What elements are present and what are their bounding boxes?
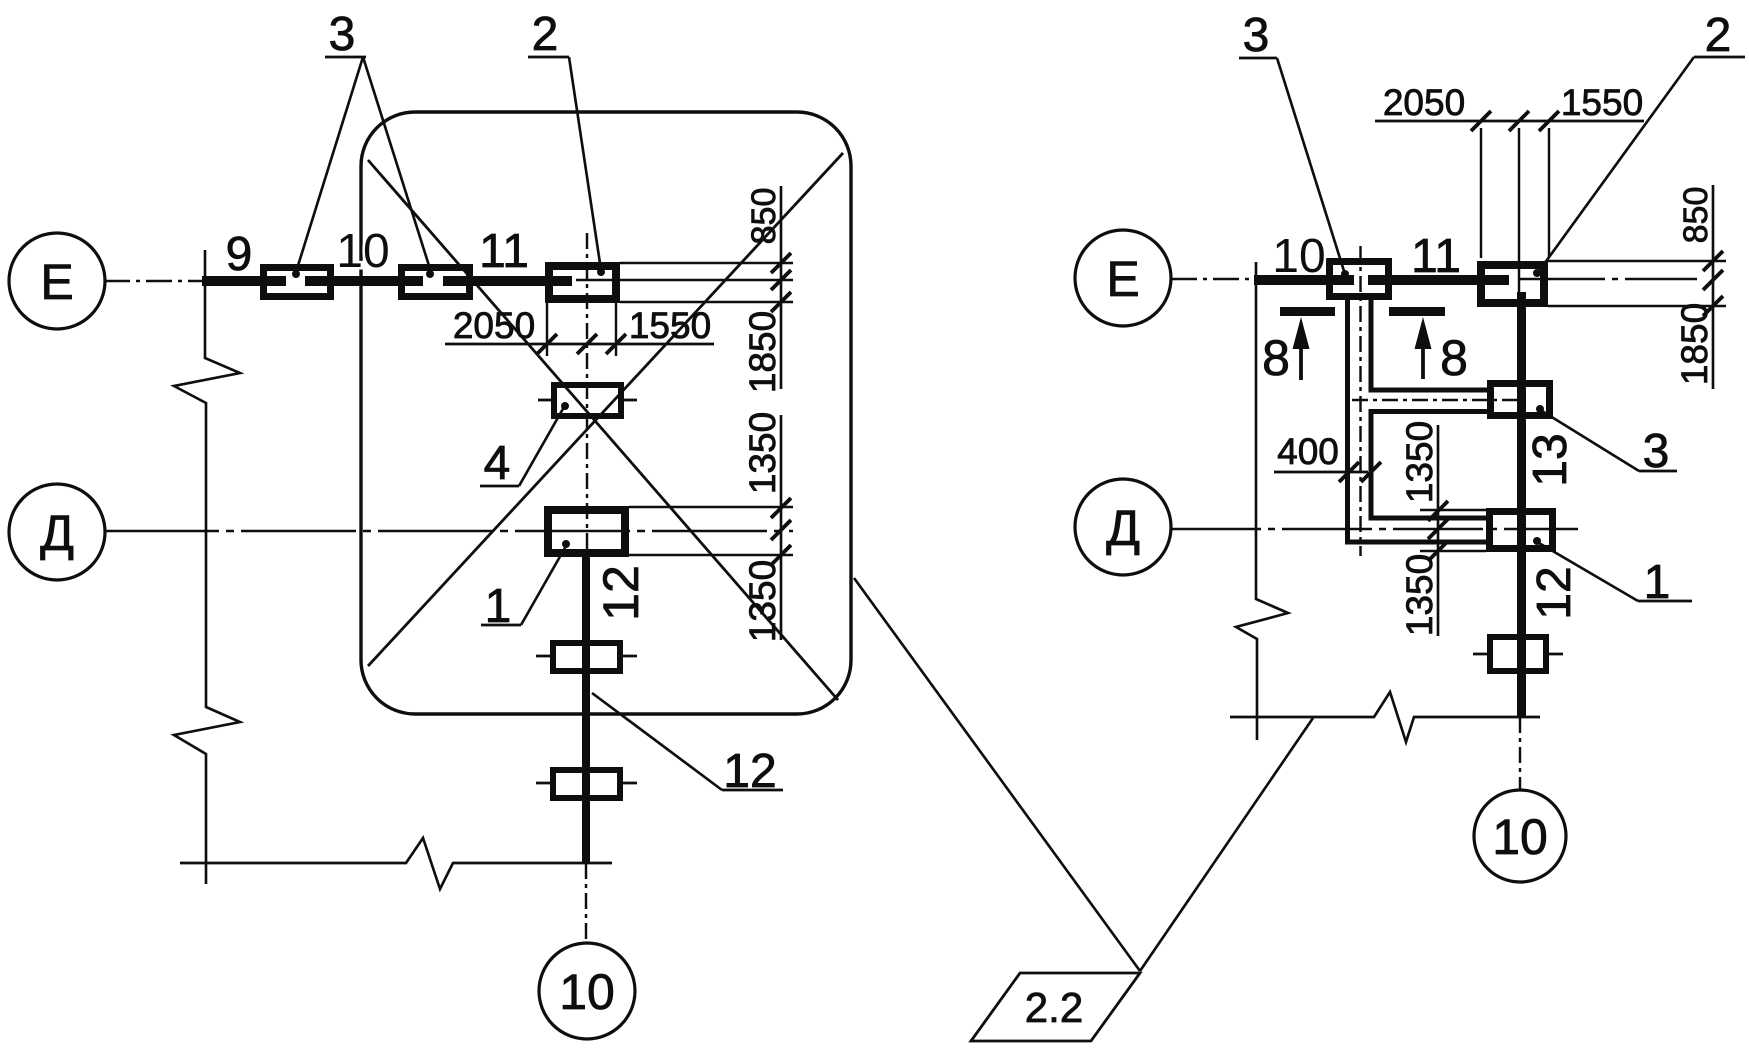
riser centerline (axis 10 vertical) xyxy=(586,233,588,557)
sleeve box 4 xyxy=(538,385,637,416)
axis E right continuation centerline xyxy=(1520,278,1697,280)
sleeve on riser lower xyxy=(536,770,637,798)
svg-text:10: 10 xyxy=(559,964,615,1020)
LEFT-DRAWING xyxy=(9,8,1140,1039)
wall on axis E xyxy=(202,276,572,286)
riser wall below box 1 xyxy=(582,557,590,863)
diagonal brace 2 xyxy=(368,153,843,666)
anchor box 11 xyxy=(549,266,616,299)
svg-text:3: 3 xyxy=(329,8,356,61)
svg-text:1550: 1550 xyxy=(1561,82,1643,123)
svg-text:12: 12 xyxy=(723,745,776,798)
dot in box 11 xyxy=(597,268,605,276)
dot in box 10 right xyxy=(1341,270,1349,278)
air arrow 8 left xyxy=(1262,307,1335,386)
anchor box 13 xyxy=(1491,384,1550,416)
tee branch bottom and duct inner lower contour xyxy=(1371,412,1487,519)
anchor box 9 xyxy=(264,268,331,297)
vertical dimension 850/1850 right xyxy=(1674,185,1723,389)
dim 2050 1550 (left) xyxy=(445,303,714,356)
dot in box 10 xyxy=(426,270,434,278)
svg-text:Д: Д xyxy=(1106,500,1140,556)
callout 1 right xyxy=(1539,543,1692,609)
svg-text:1350: 1350 xyxy=(1399,554,1440,636)
svg-text:Е: Е xyxy=(40,254,73,310)
axis E right centerline xyxy=(1171,278,1256,280)
section mark 2.2 parallelogram xyxy=(971,973,1140,1041)
svg-text:12: 12 xyxy=(1528,566,1581,619)
anchor box 1 xyxy=(548,510,625,553)
svg-text:10: 10 xyxy=(1272,230,1325,283)
duct centerline vertical xyxy=(1359,246,1361,556)
extension lines from box 1 to right stack xyxy=(629,507,793,555)
equipment outline (rounded rectangle) xyxy=(361,112,851,714)
centerline to bubble 10 right xyxy=(1519,717,1521,790)
svg-text:Д: Д xyxy=(40,505,74,561)
wall on axis E right xyxy=(1254,275,1509,285)
svg-text:11: 11 xyxy=(479,225,529,278)
svg-text:1850: 1850 xyxy=(1674,303,1715,385)
anchor box 11 right xyxy=(1481,265,1544,303)
duct inner upper contour with tee branch top xyxy=(1371,298,1487,390)
callout 2 with leader to box 11 xyxy=(528,8,601,270)
riser wall right drawing xyxy=(1517,292,1526,717)
svg-text:12: 12 xyxy=(593,565,649,621)
callout 3 top right xyxy=(1239,9,1344,271)
dot in box 11 right xyxy=(1533,269,1541,277)
svg-text:1350: 1350 xyxy=(742,560,783,642)
svg-text:1850: 1850 xyxy=(742,311,783,393)
grid bubble 10 (bottom) xyxy=(539,943,635,1039)
duct outer contour xyxy=(1348,298,1487,542)
grid bubble E (axis Е) xyxy=(9,233,105,329)
svg-text:2: 2 xyxy=(1705,9,1732,62)
callout 12 with leader to riser xyxy=(592,693,783,798)
svg-text:13: 13 xyxy=(1524,433,1577,486)
floor break line bottom xyxy=(180,838,612,889)
svg-text:10: 10 xyxy=(336,225,389,278)
svg-text:3: 3 xyxy=(1243,9,1270,62)
svg-text:8: 8 xyxy=(1440,330,1468,386)
diagonal brace 1 xyxy=(368,160,838,700)
svg-text:10: 10 xyxy=(1492,809,1548,865)
svg-text:4: 4 xyxy=(484,437,511,490)
svg-text:2050: 2050 xyxy=(453,305,535,346)
leader from section mark to floor line xyxy=(1140,718,1313,971)
svg-text:1350: 1350 xyxy=(742,412,783,494)
svg-text:11: 11 xyxy=(1411,230,1461,283)
extension lines from box 11 right xyxy=(1548,261,1726,306)
svg-text:8: 8 xyxy=(1262,330,1290,386)
vertical dimension line lower (1350/1350) xyxy=(742,412,791,642)
dim 400 xyxy=(1274,431,1381,482)
svg-text:9: 9 xyxy=(226,228,253,281)
extension lines from box 11 to right stack xyxy=(576,263,793,302)
callout 3 mid right xyxy=(1542,411,1677,478)
callout 2 top right xyxy=(1539,9,1745,271)
axis D right centerline xyxy=(1171,528,1578,530)
grid bubble 10 right xyxy=(1474,790,1566,882)
grid line at column 9 with break symbols xyxy=(174,250,240,884)
floor break line right xyxy=(1230,692,1540,742)
svg-text:400: 400 xyxy=(1277,431,1339,472)
svg-text:850: 850 xyxy=(1677,187,1715,244)
RIGHT-DRAWING xyxy=(971,9,1745,1041)
grid bubble D right xyxy=(1075,479,1171,575)
callout 1 with leader xyxy=(481,546,566,633)
anchor box 1 right xyxy=(1490,512,1553,549)
vertical dimension line upper (850/1850) xyxy=(742,186,791,393)
svg-text:1550: 1550 xyxy=(629,305,711,346)
dim 1350 vertical right xyxy=(1399,421,1486,636)
grid bubble D (axis Д) xyxy=(9,484,105,580)
sleeve on riser right xyxy=(1473,637,1563,671)
air arrow 8 right xyxy=(1389,307,1468,386)
dot in box 9 xyxy=(292,270,300,278)
svg-text:Е: Е xyxy=(1106,251,1139,307)
top dimension 2050/1550 right xyxy=(1375,82,1644,300)
svg-text:2: 2 xyxy=(532,8,559,61)
sleeve on riser upper xyxy=(536,643,637,671)
section leader to 2.2 (from outline) xyxy=(854,578,1140,971)
centerline to bubble 10 xyxy=(585,863,587,944)
callout 4 with leader xyxy=(480,407,564,490)
svg-text:2050: 2050 xyxy=(1383,82,1465,123)
grid bubble E right xyxy=(1075,230,1171,326)
svg-text:1350: 1350 xyxy=(1399,421,1440,503)
grid line right with break xyxy=(1236,262,1288,740)
anchor box 10 xyxy=(402,268,470,297)
svg-text:850: 850 xyxy=(745,188,783,245)
anchor box 10 right xyxy=(1330,262,1389,297)
callout 3 with leaders to boxes 9 and 10 xyxy=(296,8,431,272)
axis E centerline xyxy=(104,280,204,282)
svg-text:2.2: 2.2 xyxy=(1025,984,1083,1031)
axis D centerline xyxy=(104,530,793,532)
duct centerline branch horizontal xyxy=(1352,399,1520,401)
